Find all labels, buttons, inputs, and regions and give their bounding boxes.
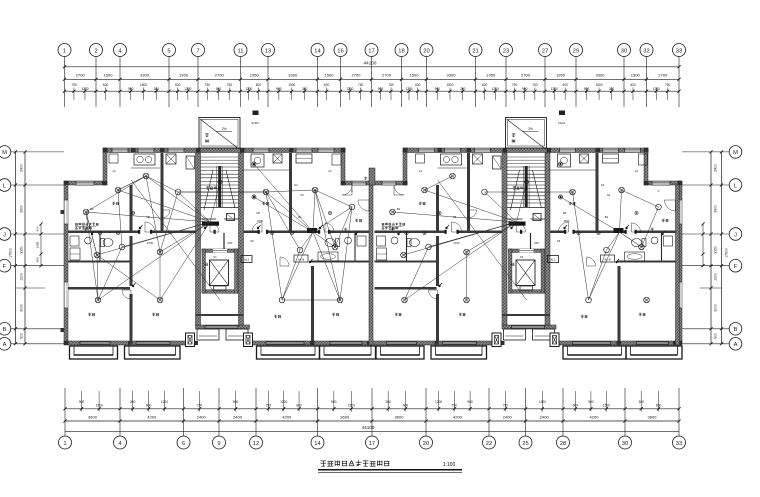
svg-text:N2: N2 [300, 193, 304, 197]
staircase arrows right unit [511, 170, 520, 210]
svg-text:F: F [734, 264, 738, 270]
svg-text:B: B [3, 327, 7, 333]
elevator door gap left unit [213, 249, 227, 252]
door jamb marks left unit [138, 230, 140, 234]
svg-text:900: 900 [276, 87, 282, 91]
axis line 12 bottom [255, 388, 257, 436]
right dimension vertical lines [710, 152, 712, 344]
washbasin west left unit [85, 237, 92, 244]
svg-text:900: 900 [228, 241, 233, 245]
axis leader M left [11, 151, 65, 153]
svg-text:2400: 2400 [503, 415, 513, 420]
top overall dimension line [65, 66, 680, 68]
vent shaft box east left unit [273, 154, 282, 163]
balcony at x324 [320, 346, 376, 359]
exterior top wall right unit [403, 148, 648, 153]
svg-text:600: 600 [175, 83, 181, 87]
svg-text:1200: 1200 [551, 87, 558, 91]
svg-text:B2: B2 [397, 207, 401, 211]
axis bubble 1 bottom [59, 436, 72, 449]
svg-text:600: 600 [656, 404, 662, 408]
ceiling lamps left unit [115, 187, 121, 193]
axis bubble 16 top [334, 44, 347, 57]
svg-text:1950: 1950 [179, 73, 189, 78]
top minor dimension line [65, 90, 680, 92]
axis leader J right [682, 233, 729, 235]
svg-text:1B: 1B [146, 215, 150, 219]
core recess bottom wall left unit [196, 325, 250, 329]
svg-text:3600: 3600 [340, 415, 350, 420]
axis line 29 top [575, 57, 577, 108]
door arcs left unit [145, 222, 155, 232]
canopy top-right marks left unit [253, 111, 259, 116]
svg-text:1500: 1500 [603, 404, 610, 408]
svg-text:B2: B2 [90, 207, 94, 211]
stair upper tread lines left unit [201, 156, 239, 158]
stair label row right unit [513, 187, 516, 189]
svg-text:1200: 1200 [280, 400, 287, 404]
windows on bottom walls [80, 341, 110, 345]
recess shaft box right unit east [550, 333, 559, 347]
cabinet right unit [603, 154, 619, 163]
core west wall right unit [502, 153, 507, 325]
svg-text:17900: 17900 [9, 248, 13, 258]
svg-text:J: J [3, 232, 6, 238]
axis line 23 top [505, 57, 507, 108]
al-b box right unit [601, 255, 615, 262]
top wall corner left-unit east end [341, 148, 345, 185]
stair canopy right unit [506, 118, 547, 149]
svg-text:300: 300 [302, 87, 308, 91]
balcony at x630 [626, 346, 682, 359]
axis bubble 20 top [420, 44, 433, 57]
axis line 6 bottom [183, 388, 185, 436]
wiring left unit [118, 190, 210, 222]
party wall east left unit [369, 185, 373, 345]
axis line 21 top [475, 57, 477, 108]
AL1 panel box left unit [241, 256, 252, 263]
svg-text:J: J [734, 232, 737, 238]
stair upper tread lines right unit [507, 156, 545, 158]
svg-text:4200: 4200 [453, 415, 463, 420]
bath partition x100 right unit [406, 233, 408, 261]
svg-text:9: 9 [217, 441, 220, 447]
balcony at x129 [125, 346, 181, 359]
svg-text:21: 21 [472, 48, 478, 54]
svg-text:B1: B1 [298, 215, 302, 219]
room labels left unit [88, 313, 91, 315]
core west wall left unit [196, 153, 201, 325]
svg-text:1200: 1200 [539, 400, 546, 404]
svg-text:1500: 1500 [563, 219, 570, 223]
svg-text:2%: 2% [222, 127, 227, 131]
svg-text:N2: N2 [607, 193, 611, 197]
middle wall y262 west right unit [375, 261, 437, 263]
axis line 25 bottom [525, 388, 527, 436]
svg-text:1500: 1500 [96, 404, 103, 408]
elevator car with X left unit [210, 260, 229, 286]
svg-text:16: 16 [337, 48, 343, 54]
axis line 7 top [197, 57, 199, 108]
axis leader A right [682, 343, 729, 345]
top wall corner vertical left [103, 148, 107, 185]
axis bubble J right [729, 228, 742, 241]
svg-text:A: A [3, 342, 7, 348]
interior wall x131 lower left unit [130, 294, 133, 345]
svg-text:900: 900 [331, 400, 337, 404]
middle wall y262 east left unit [311, 261, 369, 263]
svg-text:23: 23 [503, 48, 509, 54]
svg-text:32: 32 [643, 48, 649, 54]
kitchen stove left unit [134, 154, 155, 165]
svg-text:2700: 2700 [76, 73, 86, 78]
svg-text:3600: 3600 [395, 415, 405, 420]
svg-text:300: 300 [609, 87, 615, 91]
axis bubble 22 bottom [483, 436, 496, 449]
top wall corner right-unit east end [644, 148, 648, 185]
middle wall y232 right unit [375, 231, 447, 234]
svg-text:3000: 3000 [20, 304, 24, 312]
svg-text:28: 28 [560, 441, 566, 447]
mid recess top wall [341, 181, 407, 185]
interior wall x131 lower right unit [436, 294, 439, 345]
right sub chain J-F [702, 224, 704, 266]
party wall east right unit [676, 185, 680, 345]
left exterior wall [64, 181, 68, 344]
svg-text:1200: 1200 [184, 87, 191, 91]
axis leader M right [682, 151, 729, 153]
svg-text:1500: 1500 [446, 83, 453, 87]
elevator label right unit [511, 262, 514, 264]
axis leader B right [682, 328, 729, 330]
svg-text:600: 600 [562, 83, 568, 87]
core recess bottom wall right unit [502, 325, 556, 329]
windows on left exterior wall [64, 200, 68, 224]
svg-text:33: 33 [676, 48, 682, 54]
svg-text:4200: 4200 [147, 415, 157, 420]
bottom minor ticks and texts [81, 391, 83, 412]
svg-text:1200: 1200 [346, 87, 353, 91]
axis line 16 top [340, 57, 342, 108]
bottom exterior wall segment 2 [249, 341, 503, 345]
axis bubble 17 bottom [366, 436, 379, 449]
svg-text:750: 750 [358, 83, 364, 87]
svg-text:1500: 1500 [140, 83, 147, 87]
svg-text:44100: 44100 [364, 61, 377, 66]
extra branch wires left unit [118, 176, 146, 190]
ceiling lamps right unit [422, 187, 428, 193]
elevator shaft walls left unit [202, 249, 238, 252]
svg-text:A: A [734, 342, 738, 348]
middle wall y232 left unit [68, 231, 140, 234]
kitchen sink left unit [251, 154, 264, 167]
circuit label text rows left unit [75, 222, 78, 224]
svg-text:450: 450 [36, 257, 40, 262]
svg-text:2400: 2400 [540, 415, 550, 420]
interior wall x290 right unit [596, 153, 599, 232]
svg-text:30: 30 [621, 48, 627, 54]
elevator shaft walls right unit [509, 249, 545, 252]
al-b box left unit [294, 255, 308, 262]
elevator car with X right unit [516, 260, 535, 286]
svg-text:1200: 1200 [405, 87, 412, 91]
svg-text:1500: 1500 [288, 83, 295, 87]
vent shaft box west right unit [473, 154, 483, 164]
svg-text:750: 750 [266, 404, 272, 408]
small recess balcony left unit east [226, 329, 248, 340]
top band appliance box east left unit [332, 154, 341, 165]
bathtub east left unit [318, 252, 338, 261]
axis leader L left [11, 184, 65, 186]
bottom chain dimension line [65, 420, 679, 422]
axis line 1 top [64, 57, 66, 108]
AL1 panel box right unit [548, 256, 559, 263]
svg-text:1: 1 [63, 441, 66, 447]
axis leader F right [682, 265, 729, 267]
axis line 5 top [168, 57, 170, 108]
svg-text:1200: 1200 [492, 87, 499, 91]
svg-text:750: 750 [227, 83, 233, 87]
elevator door gap right unit [520, 249, 534, 252]
counter line top band left unit [131, 167, 160, 169]
axis bubble F right [729, 259, 742, 272]
axis leader B left [11, 328, 65, 330]
top band appliance box west right unit [416, 154, 425, 163]
staircase arrows left unit [204, 170, 213, 210]
axis line 13 top [267, 57, 269, 108]
svg-text:5: 5 [167, 48, 170, 54]
room labels right unit [395, 313, 398, 315]
svg-text:25: 25 [522, 441, 528, 447]
svg-text:30: 30 [622, 441, 628, 447]
closet rects west left unit [70, 248, 80, 260]
svg-text:17: 17 [369, 441, 375, 447]
svg-text:13: 13 [265, 48, 271, 54]
washbasin east left unit [345, 237, 352, 244]
axis bubble 30 bottom [619, 436, 632, 449]
svg-text:900: 900 [588, 400, 594, 404]
left sub chain J-F [40, 224, 42, 266]
axis bubble 5 top [163, 44, 176, 57]
left dimension vertical lines [14, 152, 16, 344]
core east wall left unit [239, 153, 244, 325]
axis line 20 top [426, 57, 428, 108]
svg-text:900: 900 [79, 400, 85, 404]
svg-text:2A: 2A [635, 169, 639, 173]
svg-text:17900: 17900 [725, 248, 729, 258]
wall knobs left unit [61, 210, 65, 214]
svg-text:1: 1 [63, 48, 66, 54]
axis leader A left [11, 343, 65, 345]
svg-text:M: M [733, 150, 738, 156]
svg-text:900: 900 [534, 241, 539, 245]
toilet east right unit [632, 239, 642, 247]
svg-text:300: 300 [154, 87, 160, 91]
axis line 18 top [401, 57, 403, 108]
svg-text:900: 900 [714, 333, 718, 339]
svg-text:N6: N6 [250, 239, 254, 243]
structural piers recess walls [64, 181, 69, 185]
svg-text:750: 750 [452, 404, 458, 408]
svg-text:11: 11 [237, 48, 243, 54]
recess shaft box left unit west [186, 333, 195, 347]
distribution hub box 2 right unit [614, 228, 624, 233]
axis bubble 7 top [192, 44, 205, 57]
axis line 20 bottom [425, 388, 427, 436]
wall knobs right unit [61, 210, 65, 214]
svg-text:AL1: AL1 [550, 258, 556, 262]
svg-text:1200: 1200 [714, 273, 718, 281]
canopy top-right marks right unit [559, 111, 565, 116]
axis line 32 top [646, 57, 648, 108]
svg-text:300: 300 [130, 400, 136, 404]
axis bubble F left [0, 259, 11, 272]
svg-text:N1: N1 [520, 255, 524, 259]
hall wall below stairs right unit [530, 233, 532, 249]
svg-text:1500: 1500 [631, 73, 641, 78]
svg-text:900: 900 [378, 87, 384, 91]
axis bubble 17 top [365, 44, 378, 57]
svg-text:1B: 1B [453, 215, 457, 219]
axis bubble 11 top [234, 44, 247, 57]
svg-text:750: 750 [512, 83, 518, 87]
switch symbols left unit [140, 225, 143, 228]
mid recess label [364, 177, 367, 179]
axis bubble B left [0, 323, 11, 336]
axis leader J left [11, 233, 65, 235]
svg-text:1200: 1200 [245, 87, 252, 91]
core lower wall y315 right unit [502, 314, 550, 316]
svg-text:414: 414 [36, 226, 40, 231]
svg-text:AL-B: AL-B [298, 257, 304, 261]
door jamb marks right unit [445, 230, 447, 234]
right exterior wall [678, 181, 682, 344]
svg-text:3000: 3000 [714, 304, 718, 312]
svg-text:600: 600 [103, 83, 109, 87]
interior wall x131 mid right unit [436, 236, 439, 286]
svg-text:900: 900 [435, 87, 441, 91]
distribution hub box 2 left unit [307, 228, 317, 233]
svg-text:N6: N6 [557, 239, 561, 243]
elevator counterweight right unit [520, 286, 533, 290]
structural piers bottom wall [64, 341, 69, 345]
bath partition x100 left unit [99, 233, 101, 261]
top wall corner right-unit west end [403, 148, 407, 185]
bottom minor dimension line [65, 408, 679, 410]
circuit label text rows right unit [382, 222, 385, 224]
svg-text:600: 600 [415, 83, 421, 87]
title pseudo CJK text [321, 462, 327, 464]
svg-text:2B: 2B [256, 211, 260, 215]
svg-text:4200: 4200 [282, 415, 292, 420]
axis bubble L right [729, 179, 742, 192]
svg-text:750: 750 [71, 83, 77, 87]
svg-text:20: 20 [423, 441, 429, 447]
svg-text:900: 900 [584, 87, 590, 91]
stair canopy left unit [199, 118, 240, 149]
title underline thick [318, 469, 462, 471]
svg-text:14: 14 [314, 48, 321, 54]
axis bubble 33 bottom [673, 436, 686, 449]
windows on top walls [112, 148, 128, 153]
mid recess stub wall [369, 168, 375, 185]
vent shaft box west left unit [166, 154, 176, 164]
svg-text:1500: 1500 [104, 73, 114, 78]
washbasin east right unit [651, 237, 658, 244]
svg-text:1500: 1500 [257, 219, 264, 223]
svg-text:K: K [658, 189, 660, 193]
axis bubble M left [0, 146, 11, 159]
balcony at x435 [431, 346, 487, 359]
svg-text:1950: 1950 [556, 73, 566, 78]
door arcs right unit [452, 222, 462, 232]
interior wall x312 bottom right unit [618, 266, 621, 341]
elevator label left unit [205, 262, 208, 264]
axis line 33 top [678, 57, 680, 108]
top band appliance box west left unit [109, 154, 118, 163]
svg-text:2700: 2700 [382, 73, 392, 78]
axis bubble 28 bottom [557, 436, 570, 449]
axis line 22 bottom [488, 388, 490, 436]
title underline thin [318, 472, 462, 474]
axis bubble 30 top [618, 44, 631, 57]
svg-text:1200: 1200 [20, 273, 24, 281]
svg-text:M: M [2, 150, 7, 156]
bath partition east right unit [661, 233, 663, 261]
small recess balcony left unit west [197, 329, 219, 340]
svg-text:27: 27 [542, 48, 548, 54]
axis bubble 23 top [500, 44, 513, 57]
axis bubble 32 top [640, 44, 653, 57]
interior wall x131 upper left unit [130, 185, 133, 232]
small recess balcony right unit east [533, 329, 555, 340]
svg-text:750: 750 [205, 83, 211, 87]
interior wall x312 bottom left unit [311, 266, 314, 341]
svg-text:14: 14 [314, 441, 321, 447]
small recess balcony right unit west [504, 329, 526, 340]
canopy side label right unit [512, 134, 515, 136]
svg-text:750: 750 [503, 404, 509, 408]
svg-text:900: 900 [20, 333, 24, 339]
svg-text:3150: 3150 [714, 246, 718, 254]
axis bubble 14 top [311, 44, 324, 57]
svg-text:2: 2 [94, 48, 97, 54]
windows mid recess [352, 181, 366, 186]
svg-text:2A: 2A [328, 169, 332, 173]
svg-text:2400: 2400 [197, 415, 207, 420]
bath partition east left unit [354, 233, 356, 261]
svg-text:600: 600 [324, 83, 330, 87]
axis line 4 bottom [119, 388, 121, 436]
axis line 28 bottom [562, 388, 564, 436]
svg-text:1500: 1500 [348, 404, 355, 408]
axis bubble 2 top [90, 44, 103, 57]
svg-text:3150: 3150 [20, 246, 24, 254]
interior wall x131 mid left unit [130, 236, 133, 286]
stair landing line left unit [201, 207, 239, 209]
axis line 9 bottom [218, 388, 220, 436]
vent shaft box east right unit [580, 154, 589, 163]
right dimension ticks [709, 150, 712, 153]
stair landing line right unit [507, 207, 545, 209]
svg-text:3300: 3300 [288, 73, 298, 78]
axis bubble 9 bottom [213, 436, 226, 449]
svg-text:3300: 3300 [140, 73, 150, 78]
svg-text:B1: B1 [605, 215, 609, 219]
svg-text:2700: 2700 [147, 241, 154, 245]
axis bubble M right [729, 146, 742, 159]
svg-text:1:100: 1:100 [443, 462, 456, 468]
